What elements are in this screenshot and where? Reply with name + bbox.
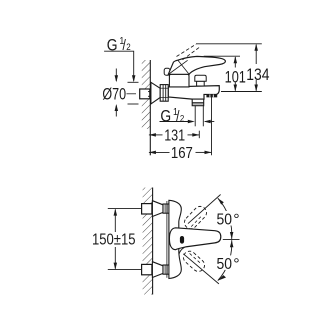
50deg lower ref line	[183, 254, 219, 284]
wall face line	[149, 60, 151, 155]
ext line 167 right	[211, 95, 213, 155]
outlet centerline	[198, 131, 200, 139]
union hex nut	[160, 85, 168, 102]
G1/2 leader arrow	[132, 75, 136, 82]
dim 131	[149, 134, 163, 136]
G1/2 leader line	[104, 51, 134, 81]
50deg lower arc	[218, 240, 232, 280]
dia70 ext line top	[128, 81, 139, 83]
lever raised position (dashed)	[177, 44, 197, 56]
body inner edge line	[166, 201, 168, 278]
G1/2 top label	[107, 35, 131, 54]
G1/2 bottom label	[160, 107, 184, 126]
dim 167	[149, 151, 170, 153]
dim 150+-15 ext bottom	[108, 269, 142, 271]
dim 134	[255, 45, 257, 64]
ext line bottom ref	[221, 91, 262, 93]
ext line top 101	[204, 55, 240, 57]
bottom union hex nut	[163, 265, 169, 274]
cartridge dome	[169, 74, 189, 87]
svg-text:°: °	[233, 256, 239, 273]
dashed handle down	[181, 249, 207, 274]
dim 101	[234, 57, 236, 68]
wall hatch	[142, 60, 151, 129]
dia70 bottom arrow	[115, 106, 117, 117]
svg-text:Ø70: Ø70	[102, 85, 126, 104]
50deg upper arc	[218, 198, 232, 239]
top union hex nut	[163, 204, 169, 213]
union square nut	[140, 89, 150, 99]
centerline	[223, 239, 240, 241]
ext line top 134	[196, 43, 262, 45]
union axis centerline	[127, 93, 137, 95]
outlet ext lines / hose	[194, 106, 196, 127]
wall face line bottom	[152, 188, 154, 295]
lever joint lines	[169, 60, 188, 74]
svg-text:2: 2	[126, 41, 131, 52]
lever handle (front)	[169, 228, 220, 250]
svg-text:50: 50	[217, 256, 233, 273]
svg-text:150±15: 150±15	[92, 232, 136, 249]
dia70 ext line bottom	[128, 103, 139, 105]
dashed handle up	[182, 204, 209, 231]
lever tab	[164, 68, 170, 75]
svg-text:167: 167	[171, 145, 193, 162]
aerator	[206, 94, 217, 97]
lever handle (side)	[168, 56, 225, 74]
skirt line below lever	[179, 247, 185, 254]
top union cone	[152, 201, 163, 217]
50deg lower text	[215, 255, 241, 270]
top union square nut	[142, 204, 152, 214]
union pipe nipple	[148, 91, 152, 93]
dia70 top arrow	[115, 69, 117, 82]
wall hatch bottom	[143, 188, 153, 295]
svg-text:G: G	[107, 36, 118, 54]
svg-text:134: 134	[246, 66, 269, 84]
50deg upper ref line	[188, 195, 221, 224]
svg-text:°: °	[233, 212, 239, 229]
faucet body (side)	[168, 86, 219, 100]
shower outlet	[192, 99, 204, 106]
bottom union cone	[152, 262, 163, 278]
G1/2 bottom right arrow	[205, 121, 214, 123]
union escutcheon cone	[151, 82, 160, 104]
svg-text:131: 131	[164, 128, 185, 145]
dim 150+-15	[114, 209, 116, 232]
svg-text:50: 50	[217, 212, 233, 229]
50deg upper text	[215, 211, 241, 226]
svg-text:101: 101	[225, 68, 246, 86]
bottom union square nut	[142, 264, 152, 274]
svg-text:G: G	[160, 108, 171, 126]
G1/2 bottom leader + arrow	[160, 121, 192, 123]
dim 150+-15 ext top	[108, 208, 142, 210]
body (front view)	[169, 200, 181, 278]
diverter knob	[197, 81, 205, 86]
lever slot	[180, 236, 184, 244]
